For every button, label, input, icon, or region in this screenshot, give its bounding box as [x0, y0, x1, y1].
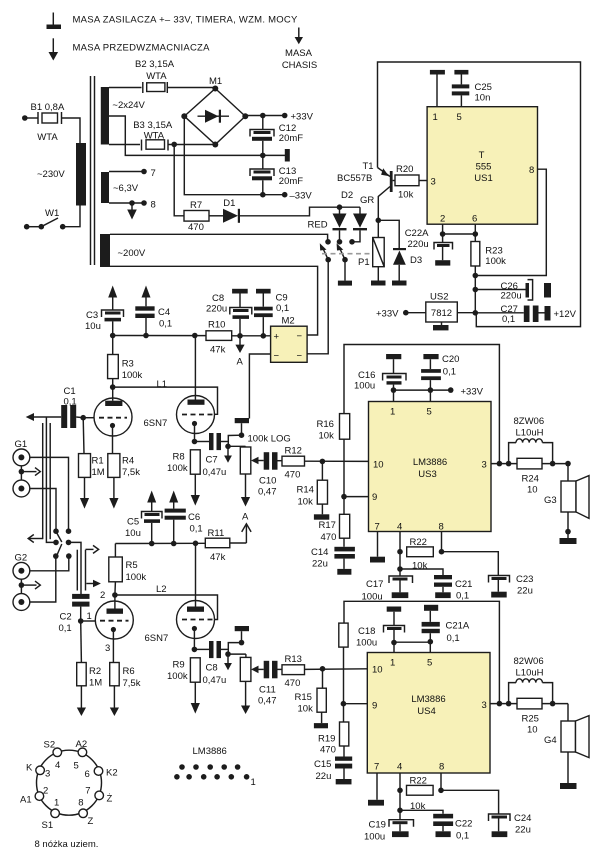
- wire G2 hot: [30, 556, 69, 571]
- speaker G3: [560, 464, 590, 544]
- svg-text:220u: 220u: [501, 291, 522, 302]
- svg-text:470: 470: [188, 222, 204, 233]
- svg-text:T: T: [479, 150, 485, 161]
- relay contact nodes top: [325, 239, 355, 245]
- wire pins 2,6: [440, 224, 478, 237]
- svg-text:C14: C14: [311, 547, 328, 558]
- inductor L 8ZW06: [509, 439, 553, 464]
- svg-text:0,47: 0,47: [258, 487, 277, 498]
- svg-text:2: 2: [100, 590, 105, 601]
- svg-text:R12: R12: [285, 446, 302, 457]
- US3 feedback loop: [344, 345, 499, 464]
- svg-text:6SN7: 6SN7: [144, 418, 168, 429]
- 555 supply loop wire: [378, 62, 581, 327]
- svg-text:WTA: WTA: [37, 132, 58, 143]
- svg-text:C25: C25: [475, 82, 492, 93]
- pot A arrow ch2: [241, 681, 250, 714]
- ground arrow heater: [127, 203, 137, 220]
- +33V line US3: [391, 387, 454, 401]
- node C27: [473, 310, 479, 316]
- regulator US2 7812: [406, 302, 476, 322]
- svg-text:0,1: 0,1: [276, 303, 289, 314]
- pot ground bar ch2: [235, 626, 249, 643]
- capacitor C12: [250, 116, 274, 156]
- node A arrow at R10: [235, 336, 244, 353]
- socket pin K2: [94, 767, 103, 776]
- svg-text:R23: R23: [485, 246, 502, 257]
- resistor R8: [190, 450, 200, 506]
- svg-text:L1: L1: [157, 379, 168, 390]
- center tap wire: [109, 116, 285, 155]
- svg-text:BC557B: BC557B: [337, 173, 372, 184]
- svg-text:1: 1: [433, 112, 438, 123]
- svg-text:1M: 1M: [89, 678, 102, 689]
- wire: [62, 118, 81, 143]
- svg-text:0,1: 0,1: [447, 633, 460, 644]
- svg-text:4: 4: [397, 522, 402, 533]
- svg-text:0,1: 0,1: [456, 831, 469, 842]
- svg-text:LM3886: LM3886: [193, 746, 227, 757]
- resistor R1: [79, 418, 91, 509]
- wire: [167, 87, 215, 89]
- svg-text:10: 10: [372, 665, 383, 676]
- fuse B3: [142, 140, 169, 151]
- svg-text:100k: 100k: [167, 671, 188, 682]
- svg-text:~6,3V: ~6,3V: [113, 183, 139, 194]
- svg-text:0,1: 0,1: [64, 397, 77, 408]
- svg-text:82W06: 82W06: [514, 656, 544, 667]
- speaker G4: [560, 704, 589, 789]
- svg-text:7,5k: 7,5k: [122, 467, 140, 478]
- wire + terminal 8: [109, 200, 147, 206]
- resistor R9: [190, 658, 200, 714]
- svg-text:R1: R1: [92, 456, 104, 467]
- svg-text:S2: S2: [44, 740, 56, 751]
- ground symbol legend (bar type): [47, 13, 62, 30]
- output line US3: [491, 461, 571, 467]
- svg-text:7: 7: [374, 762, 379, 773]
- node cathode L1b: [192, 439, 198, 445]
- svg-text:10: 10: [527, 725, 538, 736]
- terminal -33V: [282, 192, 288, 198]
- mains terminal: [22, 115, 28, 121]
- switch W1: [24, 218, 66, 230]
- svg-text:S1: S1: [42, 820, 54, 831]
- svg-text:470: 470: [320, 745, 336, 756]
- secondary winding 2x24V bar: [101, 87, 109, 145]
- cable ch2 bottom arrow: [86, 580, 101, 587]
- resistor R13: [282, 665, 367, 675]
- wire pin9 US4: [343, 703, 367, 705]
- svg-text:2: 2: [43, 786, 48, 797]
- svg-text:K: K: [26, 763, 33, 774]
- svg-text:R22: R22: [410, 776, 427, 787]
- svg-text:US2: US2: [430, 292, 448, 303]
- cable ch2 top arrow: [86, 545, 99, 553]
- svg-text:3: 3: [482, 700, 487, 711]
- svg-text:US4: US4: [417, 706, 435, 717]
- svg-text:Ż: Ż: [107, 794, 113, 805]
- wire contact to ground: [344, 260, 346, 281]
- wire contact to M2: [307, 260, 328, 354]
- node: [337, 204, 343, 210]
- svg-text:US3: US3: [418, 469, 436, 480]
- jack G1 bottom: [13, 480, 30, 497]
- svg-text:20mF: 20mF: [279, 133, 303, 144]
- svg-text:10k: 10k: [319, 431, 335, 442]
- node pin9 junction US4: [341, 701, 347, 707]
- svg-text:+12V: +12V: [554, 309, 577, 320]
- resistor R18 feedback: [339, 623, 348, 722]
- small A arrow C7 junction: [224, 446, 232, 463]
- bridge rectifier M1: [181, 86, 248, 148]
- svg-text:22u: 22u: [517, 586, 533, 597]
- junction wires ch2 pot: [225, 640, 246, 657]
- svg-text:R15: R15: [295, 692, 312, 703]
- shielded cable ch1: [43, 417, 56, 542]
- inductor L 82W06: [509, 679, 553, 704]
- svg-text:B1 0,8A: B1 0,8A: [31, 102, 65, 113]
- svg-text:100k: 100k: [122, 370, 143, 381]
- IC US3 LM3886: [369, 402, 492, 533]
- svg-text:9: 9: [372, 701, 377, 712]
- resistor R14: [314, 461, 329, 519]
- svg-text:22u: 22u: [515, 825, 531, 836]
- wire G2 cold: [30, 556, 56, 602]
- capacitor C3: [102, 310, 124, 336]
- wire 200V top rail: [110, 234, 328, 242]
- socket pin Z2: [95, 791, 104, 800]
- svg-text:C23: C23: [516, 574, 533, 585]
- IC US4 LM3886: [367, 653, 490, 774]
- svg-text:R17: R17: [319, 520, 336, 531]
- resistor R11: [205, 538, 246, 548]
- svg-text:WTA: WTA: [146, 71, 167, 82]
- svg-text:22u: 22u: [316, 771, 332, 782]
- svg-text:CHASIS: CHASIS: [282, 60, 317, 71]
- svg-text:1: 1: [251, 777, 256, 788]
- resistor R4: [108, 454, 120, 509]
- relay contact arm 2: [337, 243, 345, 260]
- capacitor C22: [400, 810, 453, 837]
- svg-text:WTA: WTA: [144, 131, 165, 142]
- svg-text:1: 1: [390, 407, 395, 418]
- capacitor C7: [195, 433, 229, 450]
- svg-text:220u: 220u: [408, 239, 429, 250]
- socket pin A2: [78, 748, 87, 757]
- terminal +33V: [282, 113, 288, 119]
- node R23 bottom: [473, 273, 479, 279]
- svg-text:R5: R5: [126, 560, 138, 571]
- svg-text:0,47: 0,47: [258, 696, 277, 707]
- fuse B2: [143, 82, 168, 93]
- svg-text:D2: D2: [341, 190, 353, 201]
- svg-text:C6: C6: [188, 512, 200, 523]
- svg-text:R16: R16: [317, 419, 334, 430]
- B+ rail ch2: [115, 541, 205, 547]
- svg-text:~230V: ~230V: [37, 169, 65, 180]
- socket labels: [20, 739, 118, 831]
- capacitor C13: [250, 155, 274, 194]
- svg-text:0,1: 0,1: [502, 314, 515, 325]
- ground symbol legend (arrow type): [49, 38, 59, 60]
- primary winding bar: [76, 143, 86, 206]
- svg-text:C8: C8: [212, 293, 224, 304]
- tube L1b: [177, 336, 215, 442]
- svg-text:100k: 100k: [126, 572, 147, 583]
- B+ arrow ch1 b: [142, 286, 151, 307]
- shielded cable ch2: [77, 550, 85, 591]
- A chevron at R11: [242, 524, 251, 543]
- svg-text:100k: 100k: [485, 256, 506, 267]
- svg-text:4: 4: [55, 760, 60, 771]
- socket pin A1: [35, 792, 44, 801]
- tube L2a: [95, 595, 133, 663]
- capacitor C21: [400, 569, 452, 598]
- resistor R3: [108, 336, 119, 388]
- wire -33 drop: [184, 116, 284, 195]
- svg-text:R6: R6: [123, 666, 135, 677]
- svg-text:R22: R22: [410, 537, 427, 548]
- node junction B3: [171, 142, 177, 148]
- svg-text:470: 470: [321, 532, 337, 543]
- diode D1: [209, 209, 240, 223]
- B+ arrow ch2 a: [147, 491, 156, 512]
- svg-text:P1: P1: [358, 257, 370, 268]
- svg-text:US1: US1: [474, 173, 492, 184]
- wire: [25, 117, 38, 119]
- wire pin8 feedback: [475, 169, 546, 275]
- svg-text:5: 5: [427, 658, 432, 669]
- svg-text:1: 1: [54, 798, 59, 809]
- capacitor C16: [383, 354, 406, 390]
- svg-text:LM3886: LM3886: [411, 694, 445, 705]
- pin7 ground US3: [370, 532, 385, 563]
- node -33: [260, 192, 266, 198]
- svg-text:L10uH: L10uH: [516, 668, 544, 679]
- svg-text:C9: C9: [276, 293, 288, 304]
- wire + terminal 7: [109, 169, 147, 175]
- LED GR: [352, 207, 367, 242]
- svg-text:K2: K2: [106, 768, 118, 779]
- svg-text:C5: C5: [127, 517, 139, 528]
- resistor R22 second: [397, 773, 444, 810]
- small A arrow C8b junction: [224, 654, 232, 670]
- svg-text:6: 6: [85, 769, 90, 780]
- svg-text:100u: 100u: [356, 638, 377, 649]
- svg-text:C15: C15: [314, 759, 331, 770]
- svg-text:R25: R25: [522, 714, 539, 725]
- transformer core: [91, 76, 95, 265]
- svg-text:~2x24V: ~2x24V: [112, 100, 145, 111]
- svg-text:8 nóżka uziem.: 8 nóżka uziem.: [35, 839, 99, 850]
- svg-text:7812: 7812: [431, 308, 452, 319]
- svg-text:10: 10: [373, 460, 384, 471]
- wire: [168, 144, 215, 146]
- svg-text:T1: T1: [363, 161, 374, 172]
- svg-text:G3: G3: [544, 495, 557, 506]
- svg-text:C18: C18: [358, 626, 375, 637]
- capacitor C18: [384, 607, 405, 653]
- svg-text:9: 9: [372, 492, 377, 503]
- B+ rail ch1: [110, 333, 206, 339]
- svg-text:8: 8: [529, 165, 534, 176]
- node C9: [261, 333, 267, 339]
- svg-text:−: −: [297, 331, 303, 342]
- chassis bar: [285, 149, 290, 162]
- svg-text:C10: C10: [259, 476, 276, 487]
- svg-text:10k: 10k: [412, 561, 428, 572]
- node grid L2a: [78, 618, 84, 624]
- capacitor C15: [335, 757, 352, 785]
- G2 shield node arrow: [19, 579, 41, 593]
- svg-text:10: 10: [527, 485, 538, 496]
- wire 200V bottom rail: [110, 266, 318, 335]
- svg-text:22u: 22u: [312, 559, 328, 570]
- svg-text:C21A: C21A: [446, 621, 470, 632]
- svg-text:Z: Z: [88, 816, 94, 827]
- svg-text:+33V: +33V: [461, 387, 484, 398]
- svg-text:R4: R4: [122, 456, 134, 467]
- node R5 anode ch2: [112, 592, 118, 598]
- svg-text:C22A: C22A: [405, 228, 429, 239]
- pin1 ground: [430, 70, 445, 107]
- svg-text:C2: C2: [60, 612, 72, 623]
- capacitor C22A: [434, 234, 453, 266]
- svg-text:10k: 10k: [298, 497, 314, 508]
- node C26: [473, 287, 479, 293]
- node grid L1a: [80, 415, 86, 421]
- svg-text:7,5k: 7,5k: [123, 678, 141, 689]
- svg-text:3: 3: [45, 769, 50, 780]
- svg-text:0,1: 0,1: [443, 367, 456, 378]
- svg-text:−: −: [297, 351, 303, 362]
- svg-text:8: 8: [439, 762, 444, 773]
- resistor R22: [397, 532, 444, 570]
- selector contacts: [53, 528, 72, 558]
- socket pin K: [36, 766, 45, 775]
- svg-text:R7: R7: [190, 200, 202, 211]
- svg-text:3: 3: [431, 177, 436, 188]
- jack G2 top: [13, 562, 30, 579]
- svg-text:470: 470: [285, 678, 301, 689]
- svg-text:C17: C17: [366, 579, 383, 590]
- resistor R6: [110, 663, 120, 717]
- svg-text:10n: 10n: [475, 93, 491, 104]
- capacitor C21A: [394, 605, 440, 653]
- resistor R10: [206, 331, 271, 341]
- svg-text:R3: R3: [122, 359, 134, 370]
- svg-text:220u: 220u: [206, 304, 227, 315]
- fuse B1: [38, 112, 62, 124]
- terminal: [403, 310, 409, 316]
- svg-text:470: 470: [285, 470, 301, 481]
- socket pin numbers: [43, 760, 91, 809]
- svg-text:20mF: 20mF: [279, 176, 303, 187]
- svg-text:0,1: 0,1: [456, 591, 469, 602]
- svg-text:R11: R11: [208, 528, 225, 539]
- svg-text:GR: GR: [360, 195, 374, 206]
- svg-text:8: 8: [78, 798, 83, 809]
- svg-text:0,47u: 0,47u: [203, 675, 227, 686]
- relay contact nodes bottom: [325, 257, 347, 263]
- resistor R17: [340, 514, 350, 547]
- capacitor C8 220u: [230, 289, 252, 336]
- resistor R16: [340, 414, 350, 515]
- svg-text:C4: C4: [158, 307, 170, 318]
- svg-text:47k: 47k: [210, 345, 226, 356]
- coupling wire L1: [113, 387, 218, 414]
- node R3 anode: [110, 384, 116, 390]
- potentiometer ch2: [240, 654, 263, 681]
- wire R22b to C24: [441, 790, 499, 814]
- LM3886 pinout dots: [174, 764, 249, 779]
- svg-text:100k LOG: 100k LOG: [248, 434, 291, 445]
- svg-text:C8: C8: [206, 663, 218, 674]
- svg-text:MASA PRZEDWZMACNIACZA: MASA PRZEDWZMACNIACZA: [73, 43, 211, 54]
- svg-text:R10: R10: [208, 320, 225, 331]
- svg-text:C7: C7: [206, 455, 218, 466]
- capacitor C10: [264, 452, 282, 470]
- svg-text:~200V: ~200V: [118, 248, 146, 259]
- tube L2b: [177, 543, 215, 649]
- svg-text:+33V: +33V: [376, 309, 399, 320]
- svg-text:6: 6: [472, 214, 477, 225]
- svg-text:W1: W1: [45, 208, 59, 219]
- masa chasis arrow: [295, 28, 303, 45]
- capacitor C27: [475, 306, 550, 323]
- capacitor C17: [389, 566, 413, 598]
- B+ arrow ch2 b: [169, 491, 178, 509]
- svg-text:R8: R8: [173, 452, 185, 463]
- LED D2: [333, 207, 347, 242]
- winding 200V bar: [100, 234, 110, 267]
- svg-text:7: 7: [85, 786, 90, 797]
- coupling wire L2: [115, 595, 218, 620]
- svg-text:RED: RED: [308, 220, 328, 231]
- svg-text:1M: 1M: [92, 467, 105, 478]
- svg-text:3: 3: [105, 643, 110, 654]
- svg-text:47k: 47k: [210, 552, 226, 563]
- socket pin S2: [53, 748, 62, 757]
- wire grid L2a: [81, 620, 96, 622]
- wire grid: [83, 417, 94, 419]
- pot A arrow ch1: [241, 474, 250, 507]
- capacitor C24: [489, 814, 511, 837]
- resistor R24: [517, 458, 542, 469]
- svg-text:100u: 100u: [354, 381, 375, 392]
- svg-text:A: A: [237, 357, 244, 368]
- svg-text:B2 3,15A: B2 3,15A: [135, 59, 175, 70]
- svg-text:8: 8: [151, 200, 156, 211]
- jack G1 top: [13, 449, 30, 466]
- jack G2 bottom: [13, 594, 30, 611]
- svg-text:R13: R13: [285, 654, 302, 665]
- capacitor C25: [452, 70, 470, 107]
- node cathode L2b: [192, 647, 198, 653]
- capacitor C11: [264, 661, 282, 679]
- resistor R25: [517, 698, 542, 709]
- svg-text:10u: 10u: [85, 321, 101, 332]
- node mid rail: [260, 153, 266, 159]
- capacitor C19: [389, 808, 414, 838]
- svg-text:A2: A2: [76, 739, 88, 750]
- resistor R23: [471, 234, 480, 313]
- node input US4: [320, 666, 326, 672]
- wire to LEDs: [240, 207, 360, 216]
- node pin9 junction: [341, 494, 347, 500]
- svg-text:8: 8: [439, 522, 444, 533]
